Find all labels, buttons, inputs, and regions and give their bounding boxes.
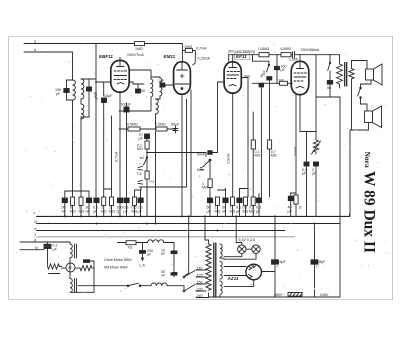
wire EBF11 grid branch down	[103, 82, 105, 96]
lamp LP1	[238, 245, 246, 253]
svg-text:+: +	[316, 265, 318, 269]
resistor R3 0,5MΩ	[119, 123, 156, 132]
capacitor C9 1,5nF	[289, 52, 300, 62]
wire motor right column	[93, 268, 95, 292]
wire L1 down	[72, 100, 74, 197]
coil L2	[81, 79, 84, 99]
capacitor C19	[80, 260, 90, 268]
wire column 191	[190, 90, 192, 216]
tube EM11	[174, 62, 191, 94]
capacitor C18 0,1uF	[44, 242, 58, 265]
resistor R15	[126, 241, 148, 250]
wire EBF11 cathode down	[119, 92, 121, 197]
wire AZ11 bottom return	[224, 280, 254, 287]
capacitor C16	[288, 193, 294, 216]
wire L5 down	[155, 114, 157, 224]
wire row2 bracket2	[240, 189, 249, 198]
wire selector feed	[184, 216, 189, 276]
resistor row2-2	[215, 197, 221, 216]
speaker SP1	[366, 64, 383, 85]
svg-text:MΩ: MΩ	[230, 210, 236, 214]
svg-text:g: g	[34, 238, 36, 242]
svg-text:MΩ: MΩ	[271, 154, 277, 158]
svg-text:MΩ: MΩ	[70, 210, 76, 214]
inductor L9	[151, 283, 167, 286]
wire lamp feed up	[236, 216, 242, 245]
wire L5 link	[156, 98, 161, 100]
wire speaker2 bottom	[350, 123, 369, 131]
resistor row1-3	[79, 197, 85, 216]
scan speckle	[16, 44, 388, 292]
wire row2 bracket1	[218, 189, 226, 191]
capacitor row2-9	[256, 194, 262, 217]
wire B+ column 275	[274, 216, 276, 297]
wire EF11 grid feed	[218, 82, 225, 153]
wire mains L	[20, 241, 49, 243]
resistor row1-2	[70, 197, 76, 216]
wire bus c end up	[349, 214, 351, 216]
tube EM11 internals	[175, 70, 189, 89]
switch a1	[138, 156, 148, 170]
wire row1 bracket b	[104, 188, 112, 190]
wire mains N	[20, 249, 44, 251]
wire column 340	[339, 97, 341, 297]
svg-text:0,8MΩ: 0,8MΩ	[259, 47, 270, 51]
capacitor C11 100uF	[275, 65, 287, 84]
wire T2B bottom	[159, 96, 161, 99]
wire column 253	[252, 112, 254, 140]
svg-text:Ω: Ω	[117, 210, 120, 214]
svg-text:0,1: 0,1	[150, 180, 155, 184]
svg-text:MΩ: MΩ	[202, 186, 208, 190]
capacitor C21 50nF	[161, 270, 177, 278]
wire AZ11 output right	[262, 271, 276, 273]
svg-text:1MΩ: 1MΩ	[135, 47, 143, 51]
lamp LP2	[252, 245, 260, 253]
tap 110	[196, 266, 206, 270]
wire AVC rail	[186, 99, 188, 187]
wire input top bracket	[67, 79, 73, 81]
svg-text:Nora: Nora	[363, 152, 372, 168]
svg-text:8μF: 8μF	[319, 260, 326, 264]
capacitor row1-1	[62, 191, 68, 216]
tube EF11	[224, 62, 241, 93]
resistor R17 0,1MΩ	[251, 140, 255, 149]
resistor row1-10	[132, 190, 138, 216]
tap 125	[196, 273, 206, 277]
IF coil L5	[156, 99, 159, 114]
wire AZ11 plate2	[224, 275, 246, 277]
capacitor C24 8uF	[311, 260, 326, 269]
capacitor C13 5nF	[316, 81, 340, 98]
wire B+ rail right	[300, 54, 340, 56]
wire return to bus	[349, 130, 351, 216]
svg-text:0,5MΩ: 0,5MΩ	[127, 123, 138, 127]
wire band column	[95, 44, 97, 198]
svg-text:230V/88mA: 230V/88mA	[301, 48, 320, 52]
transformer T4 secondary HV2	[220, 262, 222, 280]
wire tastung corner	[253, 55, 269, 65]
wire row1 bracket2	[135, 187, 142, 190]
transformer T4 secondary HV1	[220, 244, 224, 258]
svg-text:7Ω: 7Ω	[128, 246, 133, 250]
svg-text:2MΩ: 2MΩ	[185, 45, 193, 49]
wire row1 bracket	[65, 190, 89, 192]
wire drop 111.5	[111, 116, 113, 197]
resistor R10 feedback	[313, 140, 318, 154]
wire motor cap link	[90, 261, 95, 268]
wire T2 top link	[151, 77, 160, 78]
svg-text:Ohne Motor 88W: Ohne Motor 88W	[104, 258, 132, 262]
wire T4 primary top	[205, 216, 209, 244]
bus line d	[37, 223, 341, 225]
tap 220	[196, 287, 207, 291]
svg-text:1,9mA: 1,9mA	[227, 153, 231, 164]
wire L9 to selector	[167, 285, 184, 287]
resistor R1 1MΩ	[135, 42, 145, 46]
svg-text:245V: 245V	[320, 293, 329, 297]
svg-text:MΩ: MΩ	[197, 168, 203, 172]
svg-text:10μF: 10μF	[104, 94, 113, 98]
switch S3 tone	[328, 55, 331, 81]
svg-text:240: 240	[196, 294, 203, 298]
svg-text:MΩ: MΩ	[79, 210, 85, 214]
capacitor C5 100uF	[121, 103, 132, 198]
wire antenna rail A	[24, 43, 135, 45]
svg-text:W 89 Dux II: W 89 Dux II	[361, 171, 378, 253]
scan page background	[9, 37, 392, 300]
resistor R5 0,1MΩ	[137, 139, 149, 172]
capacitor C12	[259, 83, 264, 197]
wire bottom rail	[209, 296, 341, 298]
resistor R13 fusible	[48, 264, 62, 274]
tube EBF11 internals	[114, 58, 127, 85]
speaker SP2	[365, 106, 382, 128]
svg-text:2,5MΩ: 2,5MΩ	[155, 123, 166, 127]
wire to selector column	[164, 243, 174, 278]
tube EF11 internals	[227, 62, 240, 86]
svg-text:240V/7mA: 240V/7mA	[127, 53, 144, 57]
wire row2 drops	[209, 160, 211, 194]
wire secondary top	[352, 61, 361, 69]
svg-text:90V und Tastung: 90V und Tastung	[228, 50, 255, 54]
switch S5	[127, 283, 151, 286]
wire column 314	[314, 224, 316, 298]
svg-text:EM11: EM11	[164, 54, 176, 59]
resistor R4 2,5MΩ	[155, 123, 176, 132]
wire drop to EM11 anode	[181, 44, 183, 63]
resistor R2 2MΩ	[182, 50, 185, 52]
capacitor row2-1	[207, 194, 213, 216]
svg-text:Mit Motor 86W: Mit Motor 86W	[104, 266, 128, 270]
wire column 316	[315, 55, 317, 140]
wire AZ11 plate1	[224, 266, 246, 268]
wire rail cont	[269, 54, 281, 56]
svg-text:MΩ: MΩ	[101, 210, 107, 214]
wire anode row	[252, 82, 292, 84]
capacitor row1-5	[93, 198, 99, 216]
capacitor C7 50uF	[171, 123, 180, 134]
wire T3 primary bottom	[339, 86, 341, 89]
svg-text:b: b	[34, 48, 36, 52]
resistor R8 6,8MΩ	[281, 47, 292, 57]
motor M1	[62, 263, 81, 272]
wire EBF11 diode out	[129, 82, 144, 84]
switch S2	[267, 64, 270, 72]
resistor R18 0,7MΩ	[269, 80, 271, 140]
svg-text:110: 110	[197, 266, 203, 270]
svg-text:N: N	[35, 246, 38, 250]
svg-text:EBF11: EBF11	[99, 54, 113, 59]
wire wiper line	[140, 186, 187, 188]
resistor R14	[80, 266, 94, 271]
wire bottom left link	[70, 291, 94, 293]
capacitor C22 200uF	[140, 243, 154, 268]
transformer T3 primary	[337, 55, 343, 86]
capacitor C14 0,5uF	[302, 162, 309, 216]
tap 240	[196, 294, 209, 298]
svg-text:14mA: 14mA	[294, 146, 298, 156]
resistor row1-7	[109, 197, 115, 216]
capacitor C3 10uF	[102, 94, 114, 197]
svg-text:MΩ: MΩ	[243, 210, 249, 214]
capacitor row1-9	[124, 198, 130, 216]
svg-text:L.A: L.A	[140, 264, 146, 268]
capacitor C15 2uF	[312, 162, 319, 216]
tube EBF11	[111, 61, 129, 93]
wire EF11 cathode down	[232, 93, 234, 197]
wire detector line	[119, 110, 151, 112]
inductor L7 choke2	[70, 258, 77, 293]
svg-text:+: +	[276, 265, 278, 269]
IF transformer T2 coil A	[151, 79, 153, 97]
svg-text:8μF: 8μF	[280, 260, 287, 264]
wire column 275	[274, 57, 276, 66]
svg-text:MΩ: MΩ	[249, 210, 255, 214]
capacitor C6 1nF	[158, 79, 165, 87]
wire pot columns	[146, 183, 148, 216]
capacitor C4 50pF	[136, 84, 146, 93]
transformer T4 primary	[206, 244, 211, 290]
switch S6 selector1	[183, 271, 195, 278]
svg-text:MΩ: MΩ	[215, 210, 221, 214]
wire secondary bottom return	[351, 79, 353, 130]
wire speaker1 bottom	[361, 80, 372, 88]
svg-text:c: c	[34, 211, 36, 215]
coil L3	[81, 104, 84, 119]
svg-text:1nF: 1nF	[158, 79, 165, 83]
switch S4 speakers	[358, 87, 367, 107]
resistor R11	[291, 193, 302, 216]
wire to speaker1	[361, 61, 368, 65]
resistor R6	[137, 171, 155, 184]
wire mains feed top	[118, 242, 127, 244]
resistor R7 0,8MΩ	[259, 47, 270, 57]
svg-text:50: 50	[141, 89, 145, 93]
wire L3 leads	[80, 99, 82, 104]
svg-text:100μF: 100μF	[121, 103, 132, 107]
capacitor row1-11 2,5uF	[138, 190, 144, 216]
wire A rail cont	[145, 43, 183, 45]
svg-text:MΩ: MΩ	[109, 210, 115, 214]
capacitor C10	[267, 77, 272, 197]
wire ECL11 anode up	[299, 55, 301, 62]
wire lamp link	[246, 248, 252, 250]
wire choke top	[49, 242, 70, 244]
wire ECL11 grid column	[295, 95, 297, 195]
switch S7 selector2	[183, 285, 195, 292]
wire EBF11 grid left	[96, 81, 111, 83]
capacitor C20 10nF	[161, 249, 177, 257]
svg-text:0,7mA: 0,7mA	[196, 47, 207, 51]
transformer T4 core	[214, 243, 216, 297]
svg-text:MΩ: MΩ	[137, 147, 143, 151]
resistor row2-7	[249, 197, 255, 216]
IF transformer T2 coil B	[160, 78, 162, 96]
wire lamp2 down	[224, 253, 256, 259]
wire T4 primary bottom	[208, 293, 210, 297]
svg-text:125: 125	[197, 273, 203, 277]
wire mains feed bottom	[78, 285, 128, 287]
bus line f	[37, 236, 296, 238]
tap 150	[196, 280, 206, 284]
wire screen rail	[229, 55, 340, 62]
svg-text:7,6: 7,6	[137, 172, 142, 176]
inductor L6 choke	[70, 244, 77, 258]
tube ECL11 internals	[294, 63, 307, 88]
resistor R9 1kΩ	[278, 79, 288, 86]
svg-text:260V~: 260V~	[274, 293, 285, 297]
svg-text:220: 220	[196, 287, 203, 291]
wire heater row	[224, 253, 242, 256]
wire detector junction	[147, 152, 206, 154]
svg-text:6,7mA: 6,7mA	[115, 151, 119, 162]
svg-text:150: 150	[197, 280, 203, 284]
wire L2 top bracket	[81, 78, 96, 80]
svg-text:AZ11: AZ11	[227, 276, 239, 281]
bus line e	[37, 230, 286, 232]
capacitor row2-5	[236, 189, 242, 217]
inductor L8	[148, 240, 164, 243]
capacitor row1-4	[86, 191, 92, 216]
rectifier AZ11	[246, 264, 262, 280]
bus line c	[37, 215, 350, 217]
svg-text:a1: a1	[140, 156, 144, 160]
svg-text:0,23mA: 0,23mA	[198, 57, 211, 61]
capacitor C1 150pF	[55, 80, 73, 100]
wire ECL11 cathode down	[299, 95, 301, 132]
wire cathode circuit	[300, 131, 316, 133]
resistor R12	[202, 179, 212, 190]
wire T2A bottom down	[150, 97, 152, 111]
tube ECL11	[291, 61, 309, 94]
transformer T3 secondary	[349, 69, 354, 79]
wire antenna rail B	[24, 52, 73, 80]
wire EF11 screen down	[241, 78, 248, 198]
wire grid col	[164, 85, 166, 87]
capacitor C2 50pF	[87, 79, 99, 117]
rectifier AZ11 internals	[248, 264, 256, 278]
svg-text:a: a	[34, 40, 36, 44]
transformer T3 core	[345, 63, 347, 87]
wire anode to T2	[129, 70, 151, 79]
capacitor C23 8uF	[272, 260, 287, 269]
svg-text:50nF: 50nF	[197, 153, 206, 157]
resistor R16 field coil	[288, 293, 303, 297]
scan speckle extra	[16, 44, 390, 294]
wire EM11 anode top	[181, 62, 183, 70]
svg-text:6,8MΩ: 6,8MΩ	[281, 47, 292, 51]
svg-text:MΩ: MΩ	[255, 154, 261, 158]
svg-text:6,3V 0,3 A: 6,3V 0,3 A	[239, 238, 256, 242]
coil L1	[73, 80, 76, 100]
resistor row1-6	[101, 197, 107, 216]
wire EF11 anode up	[232, 55, 234, 62]
wire EM11 grid link	[165, 84, 174, 86]
capacitor row2-3	[222, 189, 228, 217]
junction dots bus	[64, 215, 316, 231]
wire EM11 cathode down	[181, 94, 183, 216]
resistor row2-4	[230, 197, 236, 216]
capacitor C17 50nF	[197, 151, 218, 172]
capacitor C8 70uF	[139, 133, 150, 141]
capacitor row1-8	[117, 198, 123, 216]
svg-text:Ω: Ω	[299, 206, 302, 210]
transformer T4 secondary heater	[220, 281, 222, 297]
svg-text:e: e	[35, 227, 37, 231]
resistor row2-6	[243, 197, 249, 216]
